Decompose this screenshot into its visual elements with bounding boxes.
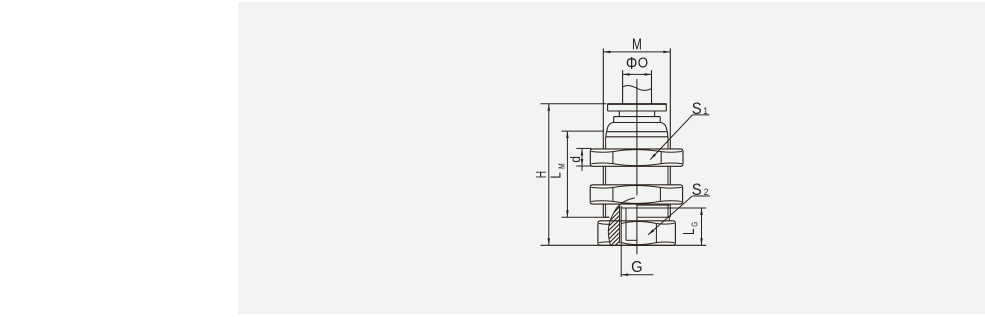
svg-text:M: M xyxy=(557,163,567,169)
svg-text:M: M xyxy=(632,35,642,53)
svg-text:Φ: Φ xyxy=(626,54,637,74)
svg-text:G: G xyxy=(631,258,642,276)
svg-text:2: 2 xyxy=(704,186,709,197)
svg-text:1: 1 xyxy=(703,105,708,116)
svg-text:S: S xyxy=(692,100,702,118)
svg-text:S: S xyxy=(692,181,702,199)
svg-text:d: d xyxy=(567,156,583,163)
svg-text:G: G xyxy=(689,222,699,227)
svg-text:L: L xyxy=(547,172,564,178)
svg-text:L: L xyxy=(681,228,698,235)
svg-text:O: O xyxy=(638,54,649,71)
